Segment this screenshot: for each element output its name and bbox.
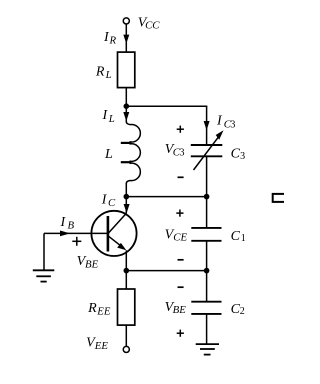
svg-text:L: L xyxy=(108,113,115,125)
svg-text:I: I xyxy=(216,114,223,129)
svg-text:B: B xyxy=(68,219,75,231)
svg-text:I: I xyxy=(101,193,108,208)
svg-text:L: L xyxy=(105,69,112,81)
svg-text:I: I xyxy=(102,108,109,123)
svg-text:1: 1 xyxy=(241,233,246,244)
svg-text:CC: CC xyxy=(145,20,160,32)
svg-text:BE: BE xyxy=(85,259,99,271)
svg-text:CE: CE xyxy=(173,231,187,243)
svg-text:3: 3 xyxy=(240,151,245,162)
svg-text:R: R xyxy=(109,34,117,46)
svg-text:C: C xyxy=(231,229,241,244)
svg-text:3: 3 xyxy=(230,119,235,130)
svg-text:L: L xyxy=(104,147,113,162)
svg-text:BE: BE xyxy=(173,304,187,316)
svg-text:2: 2 xyxy=(240,306,245,317)
svg-text:C: C xyxy=(231,146,241,161)
svg-text:R: R xyxy=(95,65,105,80)
svg-text:EE: EE xyxy=(96,305,111,317)
svg-text:R: R xyxy=(87,301,97,316)
svg-text:I: I xyxy=(60,215,67,230)
svg-text:EE: EE xyxy=(94,340,109,352)
svg-text:C: C xyxy=(108,197,116,209)
svg-text:3: 3 xyxy=(180,147,185,158)
